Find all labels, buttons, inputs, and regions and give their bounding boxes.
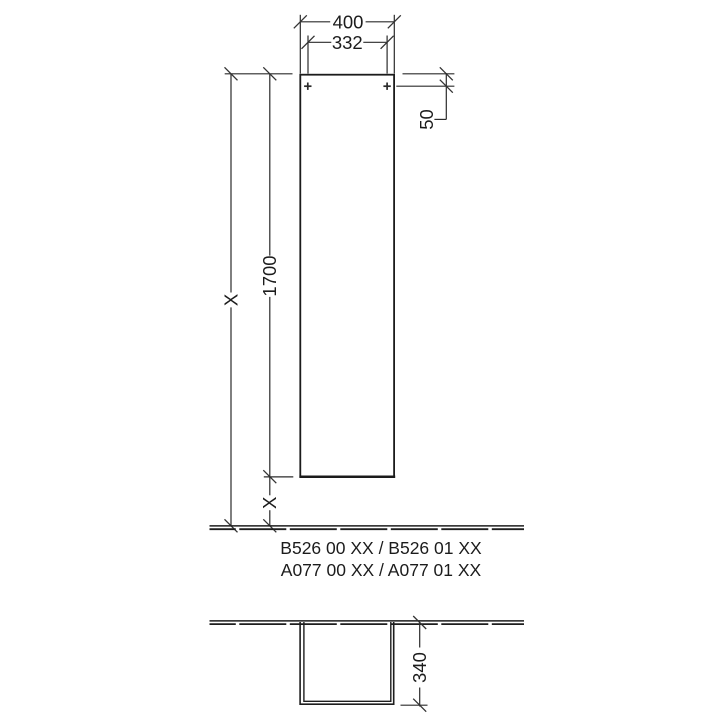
floor line front view	[210, 526, 525, 529]
mounting hole cross left	[304, 83, 311, 90]
svg-text:1700: 1700	[259, 255, 280, 296]
svg-text:340: 340	[409, 652, 430, 683]
extension line bottom-left corner level	[264, 476, 294, 478]
dimension text 340	[409, 652, 430, 683]
tick top end dim 1700	[263, 67, 276, 80]
dimension text 50	[416, 109, 437, 130]
tick bottom end dim X lower	[263, 519, 276, 532]
extension line bottom for dim 50	[396, 85, 454, 87]
cabinet front outline	[299, 75, 395, 477]
cabinet plan inner wall	[304, 622, 391, 701]
tick left end dim 400	[294, 15, 307, 28]
svg-text:400: 400	[333, 11, 364, 32]
dimension line 340	[419, 623, 421, 707]
mounting hole cross right	[383, 83, 390, 90]
tick top end dim X	[225, 67, 238, 80]
tick bottom end dim 1700	[263, 470, 276, 483]
dimension text 400	[333, 11, 364, 32]
tick left end dim 332	[302, 36, 315, 49]
tick bottom end dim X	[225, 519, 238, 532]
dimension line X lower	[269, 477, 271, 526]
svg-text:A077 00 XX / A077 01 XX: A077 00 XX / A077 01 XX	[281, 560, 482, 580]
extension line top-left corner level	[225, 73, 293, 75]
extension line top for dim 50	[403, 73, 455, 75]
dimension line 1700	[269, 74, 271, 477]
cabinet plan outer wall	[300, 622, 394, 704]
tick top end dim 340	[413, 616, 426, 629]
tick right end dim 400	[388, 15, 401, 28]
dimension text 332	[332, 32, 363, 53]
tick top end dim 50	[440, 67, 453, 80]
product code text line 2	[281, 560, 482, 580]
extension line right of dim 400	[393, 15, 395, 74]
tick right end dim 332	[381, 36, 394, 49]
svg-text:X: X	[259, 497, 280, 509]
extension line right of dim 332	[386, 36, 388, 74]
tick bottom end dim 50	[440, 80, 453, 93]
svg-text:B526 00 XX / B526 01 XX: B526 00 XX / B526 01 XX	[280, 538, 482, 558]
extension line left of dim 332	[307, 36, 309, 74]
dimension text 1700	[259, 255, 280, 296]
dimension line 400	[300, 21, 394, 23]
dimension line 50 with leader	[434, 73, 446, 119]
svg-text:332: 332	[332, 32, 363, 53]
dimension text X upper	[220, 294, 241, 306]
dimension line X overall height	[230, 74, 232, 526]
svg-text:50: 50	[416, 109, 437, 130]
dimension line 332	[308, 41, 387, 43]
product code text line 1	[280, 538, 482, 558]
extension line bottom for dim 340	[401, 704, 428, 706]
svg-text:X: X	[220, 294, 241, 306]
dimension text X lower	[259, 497, 280, 509]
wall line top view	[210, 621, 525, 624]
extension line left of dim 400	[299, 15, 301, 74]
tick bottom end dim 340	[413, 699, 426, 712]
